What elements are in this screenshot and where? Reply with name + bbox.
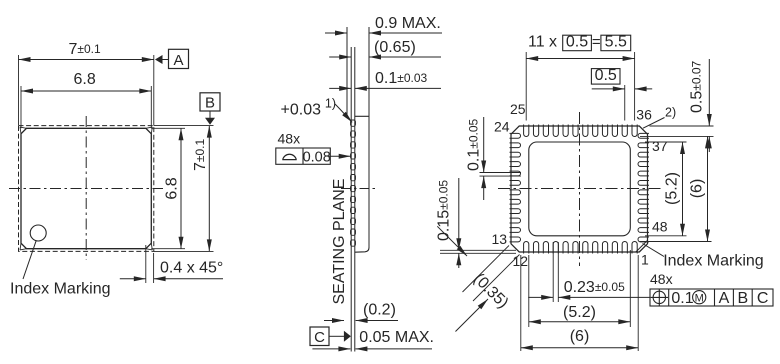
svg-text:0.1±0.03: 0.1±0.03 bbox=[375, 70, 428, 87]
svg-text:C: C bbox=[314, 329, 325, 346]
svg-text:(6): (6) bbox=[570, 328, 590, 345]
svg-text:0.5: 0.5 bbox=[595, 67, 617, 84]
svg-text:B: B bbox=[205, 95, 215, 112]
svg-text:A: A bbox=[719, 290, 730, 307]
svg-text:(6): (6) bbox=[689, 179, 706, 199]
svg-text:6.8: 6.8 bbox=[74, 71, 96, 88]
svg-text:0.1±0.05: 0.1±0.05 bbox=[466, 118, 483, 171]
svg-text:1: 1 bbox=[641, 252, 649, 268]
svg-text:C: C bbox=[757, 290, 769, 307]
svg-text:0.08: 0.08 bbox=[303, 150, 331, 166]
svg-text:11 x: 11 x bbox=[528, 34, 557, 51]
svg-text:=: = bbox=[592, 34, 601, 51]
svg-text:0.23±0.05: 0.23±0.05 bbox=[564, 279, 625, 296]
svg-text:(5.2): (5.2) bbox=[664, 172, 681, 205]
svg-text:6.8: 6.8 bbox=[164, 177, 181, 199]
svg-text:Index Marking: Index Marking bbox=[663, 253, 764, 270]
svg-text:0.5: 0.5 bbox=[566, 34, 588, 51]
svg-text:13: 13 bbox=[492, 231, 508, 247]
svg-text:0.15±0.05: 0.15±0.05 bbox=[436, 180, 453, 241]
svg-text:24: 24 bbox=[494, 119, 510, 135]
svg-text:Index Marking: Index Marking bbox=[10, 281, 111, 298]
svg-text:48x: 48x bbox=[650, 271, 673, 287]
svg-text:1): 1) bbox=[325, 97, 336, 111]
svg-text:37: 37 bbox=[652, 138, 668, 154]
svg-text:+0.03: +0.03 bbox=[281, 102, 322, 119]
svg-text:(0.2): (0.2) bbox=[363, 302, 396, 319]
svg-text:0.05 MAX.: 0.05 MAX. bbox=[359, 329, 434, 346]
svg-text:48: 48 bbox=[652, 219, 668, 235]
svg-text:5.5: 5.5 bbox=[605, 34, 627, 51]
svg-text:36: 36 bbox=[636, 107, 652, 123]
svg-text:0.5±0.07: 0.5±0.07 bbox=[689, 60, 706, 113]
svg-text:B: B bbox=[737, 290, 748, 307]
svg-text:25: 25 bbox=[510, 101, 526, 117]
svg-text:(0.65): (0.65) bbox=[374, 39, 416, 56]
svg-text:M: M bbox=[695, 292, 704, 304]
svg-text:A: A bbox=[173, 52, 183, 69]
svg-text:0.4 x 45°: 0.4 x 45° bbox=[160, 260, 223, 277]
svg-text:7±0.1: 7±0.1 bbox=[69, 41, 102, 58]
svg-text:7±0.1: 7±0.1 bbox=[192, 139, 209, 172]
svg-text:0.1: 0.1 bbox=[671, 290, 693, 307]
svg-text:0.9 MAX.: 0.9 MAX. bbox=[375, 15, 441, 32]
svg-text:48x: 48x bbox=[278, 130, 301, 146]
svg-text:SEATING PLANE: SEATING PLANE bbox=[331, 179, 348, 305]
svg-text:(5.2): (5.2) bbox=[563, 304, 596, 321]
svg-text:2): 2) bbox=[665, 106, 676, 120]
